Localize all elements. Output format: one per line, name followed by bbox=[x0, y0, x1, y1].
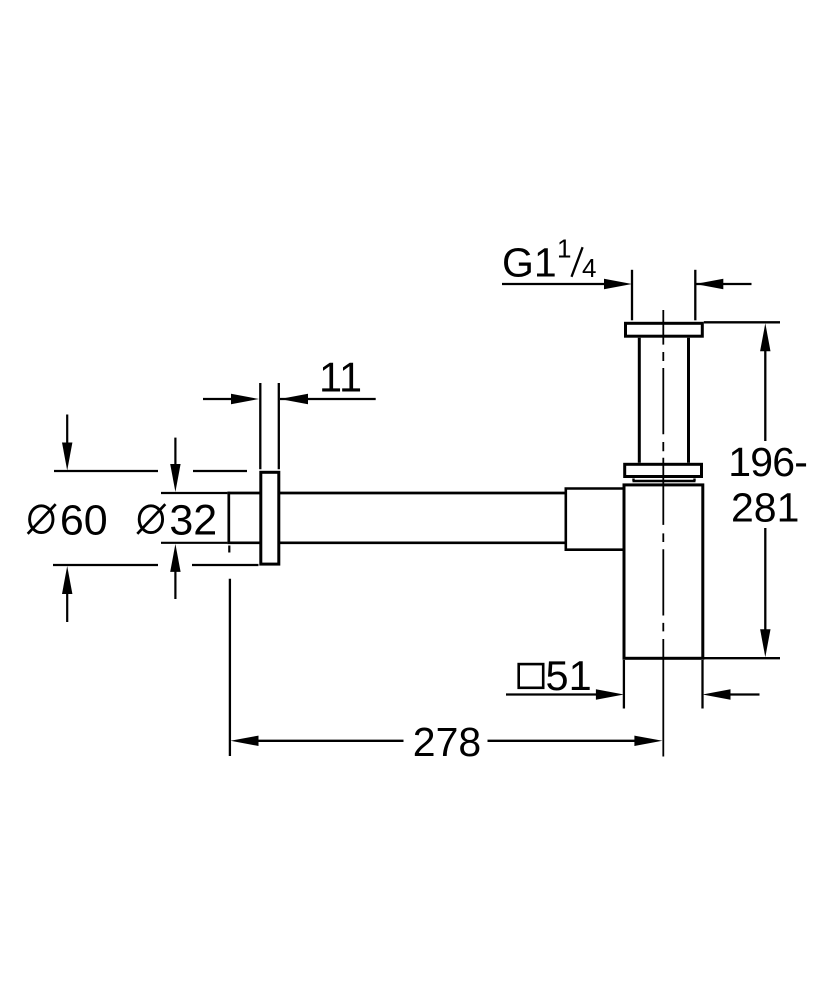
svg-text:60: 60 bbox=[60, 496, 108, 544]
arrowhead Ø32 top (points down) bbox=[170, 464, 180, 492]
dimension line 278 left part bbox=[258, 740, 404, 742]
dimension line 11 right part bbox=[280, 398, 376, 400]
dimension Ø60 bottom arrow shaft bbox=[66, 592, 68, 622]
dimension line 196-281 lower part bbox=[764, 528, 766, 630]
vertical outlet pipe walls bbox=[639, 338, 688, 463]
dimension Ø32 top arrow shaft bbox=[174, 438, 176, 465]
dimension Ø32 bottom arrow shaft bbox=[174, 570, 176, 599]
dimension line 196-281 upper part bbox=[764, 350, 766, 441]
dimension line G1 1/4 right part bbox=[695, 283, 751, 285]
fraction slash bbox=[572, 247, 583, 277]
diameter symbol of Ø32 bbox=[137, 504, 165, 534]
extension line for dimension 278 (left) bbox=[229, 579, 231, 756]
square symbol of dimension 51 bbox=[519, 664, 544, 688]
connector socket on trap body bbox=[566, 489, 624, 550]
svg-text:281: 281 bbox=[731, 485, 799, 531]
arrowhead 196-281 top (points up) bbox=[760, 323, 770, 351]
extension lines for dimension G1 1/4 bbox=[632, 270, 695, 321]
arrowhead Ø60 top (points down) bbox=[62, 443, 72, 471]
svg-text:51: 51 bbox=[546, 652, 592, 699]
dimension line 278 right part bbox=[488, 740, 636, 742]
svg-text:11: 11 bbox=[319, 354, 362, 401]
arrowhead Ø32 bottom (points up) bbox=[170, 544, 180, 572]
extension lines for dimension 11 (rosette thickness) bbox=[260, 383, 279, 469]
union nut bbox=[625, 464, 702, 476]
dimension line 11 left part bbox=[203, 398, 232, 400]
vertical centerline (dash-dot) bbox=[662, 310, 664, 757]
arrowhead 51 left (points right) bbox=[596, 689, 624, 699]
svg-text:32: 32 bbox=[169, 496, 217, 544]
horizontal inlet pipe (outline) bbox=[227, 492, 565, 553]
arrowhead G1 1/4 left (points right) bbox=[604, 279, 632, 289]
arrowhead 278 right (points right) bbox=[634, 736, 662, 746]
dimension Ø60 top arrow shaft bbox=[66, 415, 68, 446]
arrowhead Ø60 bottom (points up) bbox=[62, 566, 72, 594]
arrowhead 11 right (points left) bbox=[280, 394, 308, 404]
extension lines for dimension Ø32 bbox=[161, 493, 227, 543]
extension lines for dimension Ø60 bbox=[53, 471, 259, 565]
arrowhead 51 right (points left) bbox=[703, 689, 731, 699]
svg-text:4: 4 bbox=[582, 253, 596, 283]
svg-text:1: 1 bbox=[557, 234, 571, 264]
dimension line 51 left part bbox=[506, 693, 596, 695]
top flange (drain connection) bbox=[626, 323, 703, 336]
svg-text:G1: G1 bbox=[502, 240, 557, 286]
extension lines for dimension 196-281 bbox=[704, 322, 780, 658]
arrowhead 196-281 bottom (points down) bbox=[760, 629, 770, 657]
diameter symbol of Ø60 bbox=[28, 504, 56, 534]
washer line under nut bbox=[633, 479, 696, 482]
svg-text:278: 278 bbox=[413, 719, 481, 765]
dimension line G1 1/4 left part bbox=[502, 283, 606, 285]
arrowhead 278 left (points left) bbox=[231, 736, 259, 746]
arrowhead G1 1/4 right (points left) bbox=[695, 279, 723, 289]
arrowhead 11 left (points right) bbox=[231, 394, 259, 404]
wall flange rosette bbox=[261, 472, 279, 564]
trap body cup bbox=[624, 485, 703, 658]
svg-text:196-: 196- bbox=[728, 439, 807, 485]
dimension line 51 right part bbox=[730, 693, 760, 695]
extension lines for dimension 51 bbox=[624, 660, 703, 709]
